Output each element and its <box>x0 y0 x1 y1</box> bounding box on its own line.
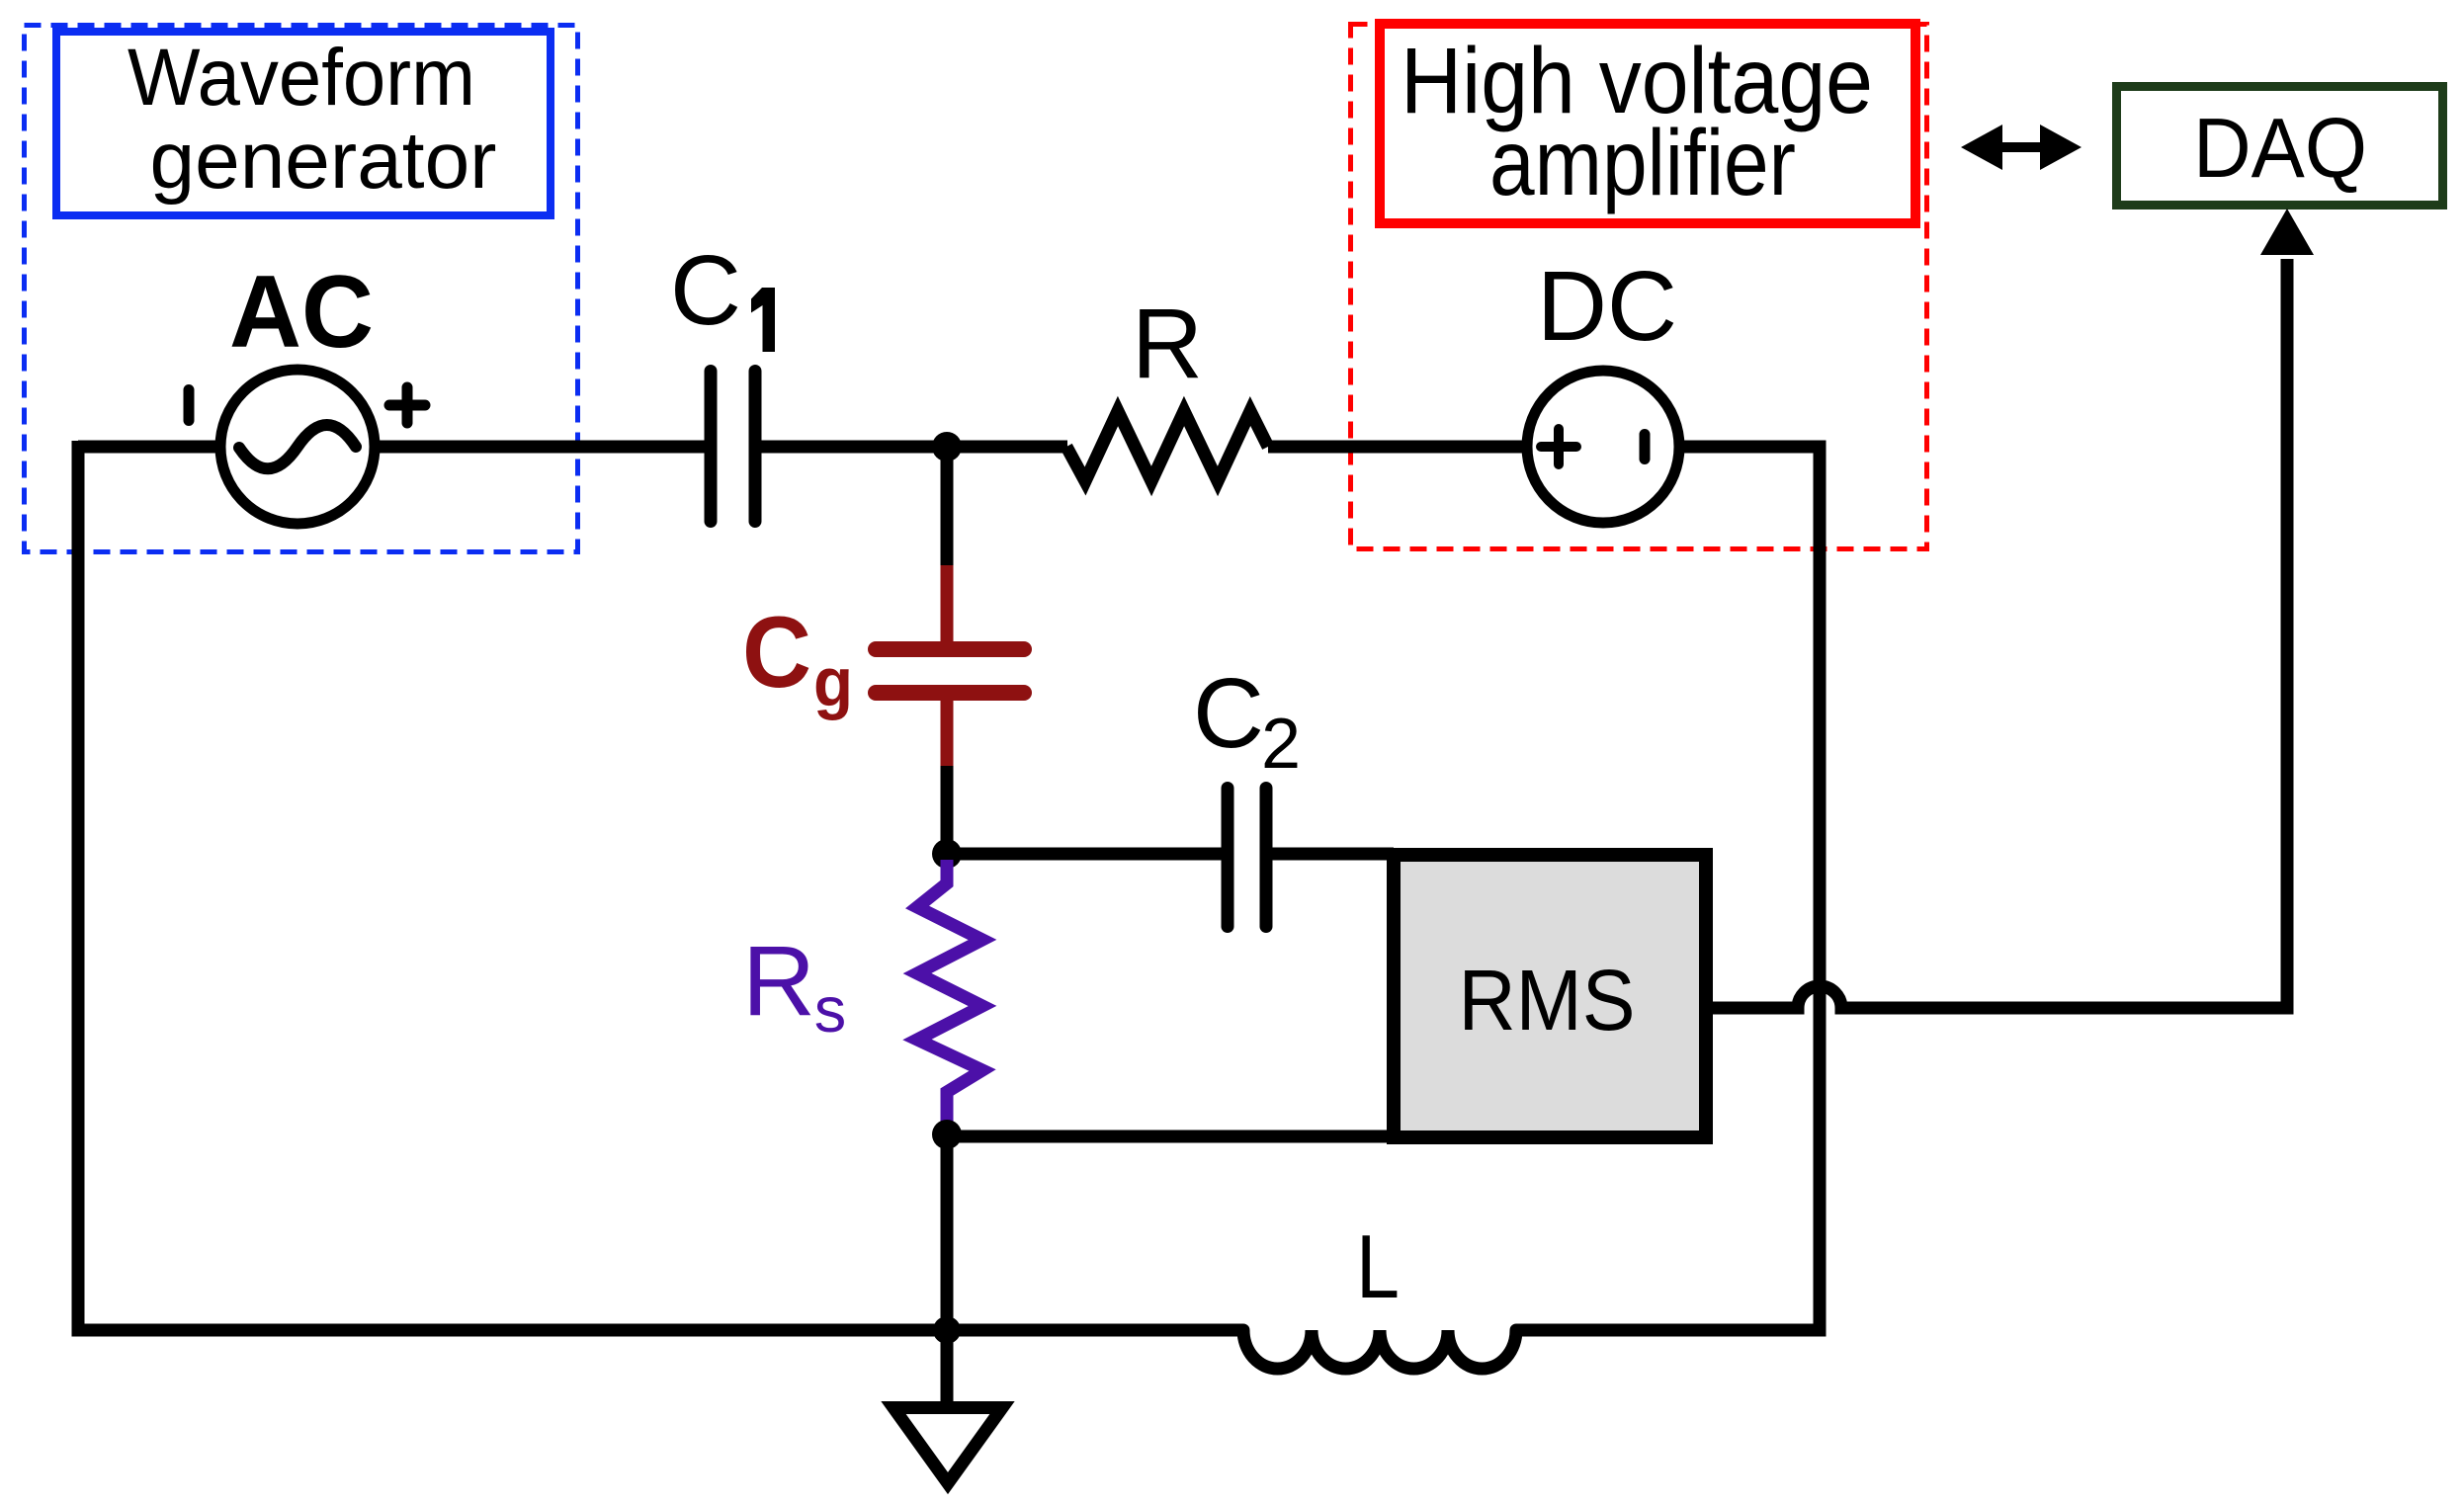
svg-text:DAQ: DAQ <box>2193 102 2367 196</box>
node A junction dot <box>932 432 962 461</box>
wire: left rail vertical <box>72 441 85 1330</box>
wire: top rail left segment (AC to left rail) <box>78 441 217 454</box>
svg-text:generator: generator <box>150 116 497 206</box>
high voltage amplifier dashed enclosure <box>1351 25 1927 549</box>
node D junction dot (ground node) <box>933 1316 961 1344</box>
svg-text:C: C <box>670 235 741 346</box>
wire: right vertical from DC to bottom rail <box>1814 447 1827 1337</box>
double arrow between amplifier and DAQ <box>1961 125 2082 170</box>
inductor L <box>1243 1217 1516 1369</box>
svg-text:s: s <box>814 973 847 1046</box>
svg-text:amplifier: amplifier <box>1489 111 1796 215</box>
ground <box>893 1330 1002 1483</box>
AC source <box>184 255 426 524</box>
waveform generator label box <box>56 32 551 215</box>
svg-text:C: C <box>742 596 811 709</box>
resistor Rs <box>742 860 982 1134</box>
svg-text:L: L <box>1356 1217 1400 1317</box>
svg-text:C: C <box>1193 658 1264 769</box>
wire: node A to resistor R <box>947 441 1067 454</box>
svg-text:Waveform: Waveform <box>127 33 475 123</box>
svg-text:DC: DC <box>1537 251 1677 362</box>
wire: bottom rail left of inductor <box>72 1324 1244 1337</box>
wire: node A down to Cg (black part) <box>941 447 954 565</box>
capacitor C1 <box>670 235 775 522</box>
wire: AC to C1 <box>375 441 706 454</box>
DC source <box>1527 251 1679 523</box>
resistor R <box>1066 289 1268 481</box>
node C junction dot <box>932 1120 962 1149</box>
svg-text:g: g <box>813 643 853 720</box>
waveform generator unit dashed enclosure <box>25 26 578 552</box>
svg-text:2: 2 <box>1261 705 1301 784</box>
svg-text:AC: AC <box>229 255 374 370</box>
svg-text:R: R <box>1132 289 1203 399</box>
svg-text:RMS: RMS <box>1459 953 1636 1048</box>
wire: C2 to RMS box <box>1272 848 1394 861</box>
capacitor Cg <box>742 565 1024 766</box>
high voltage amplifier label box <box>1380 24 1915 223</box>
wire: Cg to node B (black) <box>941 766 954 860</box>
wire: RMS output with hop over vertical <box>1713 259 2287 1008</box>
wire: C1 to node A <box>761 441 953 454</box>
wire: bottom rail right of inductor <box>1516 1324 1820 1337</box>
svg-text:R: R <box>742 926 815 1037</box>
wire: R to DC source <box>1268 441 1527 454</box>
wire: node C to RMS bottom <box>947 1130 1394 1143</box>
DAQ box <box>2117 87 2443 206</box>
arrowhead into DAQ <box>2260 209 2314 255</box>
wire: node C down to bottom rail <box>941 1134 954 1330</box>
wire: node B to C2 <box>947 848 1223 861</box>
wire: top rail from DC to right corner <box>1684 441 1827 454</box>
node B junction dot <box>932 839 962 869</box>
RMS box <box>1394 855 1706 1137</box>
capacitor C2 <box>1193 658 1301 927</box>
